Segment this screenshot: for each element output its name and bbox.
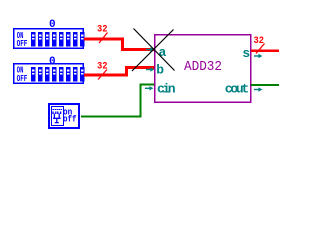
toggle switch SW3 icon frame xyxy=(52,107,64,126)
svg-text:s: s xyxy=(242,46,250,61)
module ADD32 body xyxy=(155,35,251,102)
svg-text:off: off xyxy=(63,115,77,125)
toggle switch SW3 icon poles xyxy=(53,112,61,123)
wire cin (SW3 to ADD32 cin) xyxy=(81,85,155,117)
dip-switch SW1 body xyxy=(14,29,84,49)
wire cout output xyxy=(251,84,279,86)
bus S width slash xyxy=(256,44,265,54)
dip-switch SW2 body xyxy=(14,64,84,84)
bus A width slash xyxy=(99,33,108,44)
svg-text:0: 0 xyxy=(49,19,56,31)
svg-text:b: b xyxy=(156,62,164,77)
pin cout arrow xyxy=(254,87,262,91)
svg-text:32: 32 xyxy=(254,35,265,47)
pin a arrow xyxy=(146,47,154,51)
dip-switch SW2 toggles xyxy=(31,67,85,82)
pin b arrow xyxy=(146,67,154,71)
svg-text:32: 32 xyxy=(97,23,108,35)
wire bus B (SW2 to ADD32 pin b) xyxy=(84,67,155,75)
dip-switch SW1 toggles xyxy=(31,32,85,47)
svg-text:ADD32: ADD32 xyxy=(184,59,222,75)
cursor mark X line 1 xyxy=(134,29,175,71)
toggle switch SW3 icon dots xyxy=(53,109,62,110)
svg-text:cin: cin xyxy=(157,82,176,97)
svg-text:32: 32 xyxy=(97,60,108,72)
svg-text:cout: cout xyxy=(225,82,249,97)
toggle switch SW3 body xyxy=(49,104,79,128)
bus B width slash xyxy=(98,70,107,80)
wire s output bus xyxy=(251,50,279,52)
svg-text:0: 0 xyxy=(49,56,56,68)
pin cin arrow xyxy=(145,86,153,90)
svg-text:OFF: OFF xyxy=(17,39,28,49)
pin s arrow xyxy=(254,54,262,58)
wire bus A (SW1 to ADD32 pin a) xyxy=(84,39,155,49)
svg-text:OFF: OFF xyxy=(17,74,28,84)
cursor mark X line 2 xyxy=(132,30,174,72)
